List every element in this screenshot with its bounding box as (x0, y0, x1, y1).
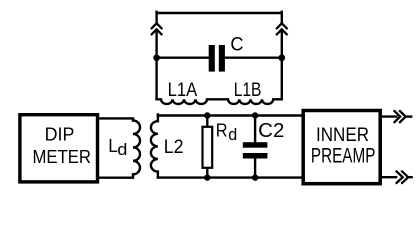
value label Rd (216, 120, 237, 144)
wire: capacitor C left lead (157, 57, 210, 59)
svg-text:L1B: L1B (234, 80, 262, 101)
capacitor C2 plates (243, 142, 268, 158)
svg-text:L2: L2 (164, 136, 184, 158)
svg-text:C: C (230, 35, 243, 56)
antenna continuation symbol right (double chevron up) (277, 23, 287, 34)
resistor Rd bottom lead (206, 168, 208, 178)
svg-text:PREAMP: PREAMP (311, 144, 376, 168)
output connector top (double chevron right) (395, 111, 406, 122)
wire: antenna loop left vertical upper stub (155, 12, 157, 23)
junction node: loop left / C (153, 54, 160, 61)
wire: preamp output top (382, 115, 397, 117)
wire: antenna loop left vertical lower (155, 30, 157, 99)
wire: preamp output bottom stub (408, 176, 412, 178)
svg-text:DIP: DIP (45, 124, 75, 144)
junction node: loop right / C (278, 54, 285, 61)
svg-text:METER: METER (33, 147, 92, 167)
svg-text:d: d (228, 125, 237, 144)
svg-text:L1A: L1A (168, 80, 198, 101)
dip meter coupling coil Ld (98, 118, 140, 177)
wire: preamp output top stub (406, 115, 412, 117)
wire: tank circuit top rail (158, 114, 304, 116)
svg-text:L: L (108, 135, 118, 156)
wire: loop bottom with L1A and L1B (157, 99, 282, 104)
junction node: bottom rail / C2 (252, 174, 258, 180)
wire: tank circuit bottom rail (158, 176, 304, 178)
resistor Rd top lead (206, 116, 208, 128)
junction node: top rail / C2 (252, 112, 258, 118)
capacitor C2 top lead (254, 116, 256, 143)
svg-text:C2: C2 (258, 120, 284, 142)
junction node: top rail / Rd (204, 112, 210, 118)
svg-text:R: R (216, 120, 228, 141)
capacitor C plates (209, 45, 225, 72)
wire: antenna loop top (157, 12, 282, 14)
wire: antenna loop right vertical upper stub (281, 12, 283, 23)
inductor L2 coil (151, 114, 158, 177)
wire: antenna loop right vertical lower (281, 30, 283, 99)
output connector bottom (double chevron right) (397, 172, 409, 183)
svg-text:INNER: INNER (316, 124, 369, 146)
resistor Rd body (203, 127, 213, 168)
junction node: bottom rail / Rd (204, 174, 210, 180)
svg-text:d: d (117, 140, 127, 159)
inner preamp box U1 (303, 111, 380, 184)
capacitor C2 bottom lead (254, 158, 256, 178)
value label Ld (108, 135, 127, 159)
wire: capacitor C right lead (224, 57, 282, 59)
wire: preamp output bottom (382, 176, 397, 178)
antenna continuation symbol left (double chevron up) (152, 23, 162, 34)
dip meter box (20, 115, 98, 182)
